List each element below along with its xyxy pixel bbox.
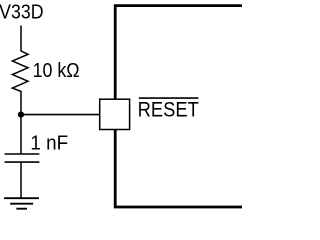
svg-text:10 kΩ: 10 kΩ bbox=[33, 59, 80, 82]
svg-text:1 nF: 1 nF bbox=[30, 131, 68, 154]
svg-text:RESET: RESET bbox=[138, 98, 199, 122]
svg-text:V33D: V33D bbox=[0, 1, 44, 24]
